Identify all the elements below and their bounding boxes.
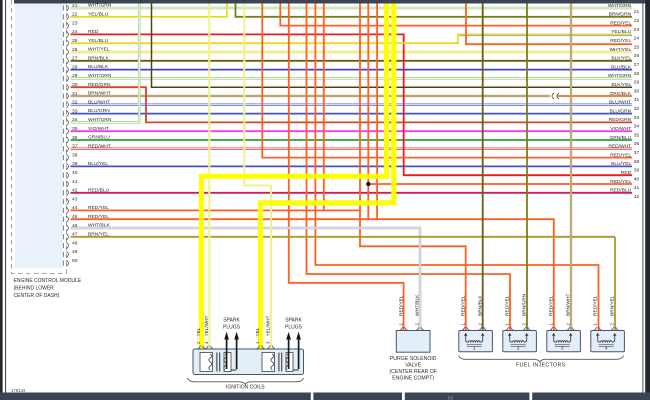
coil 1 primary winding box [200, 353, 213, 372]
svg-text:PLUGS: PLUGS [223, 324, 241, 330]
injector 2 pin entry mark 1 [506, 327, 514, 330]
svg-text:39: 39 [72, 161, 78, 167]
svg-text:21: 21 [72, 3, 78, 9]
ECM pin 34 connector bracket [62, 120, 64, 125]
thick YEL wire to coil 1 [202, 0, 387, 349]
svg-text:RED/YEL: RED/YEL [548, 295, 554, 316]
svg-text:RED/YEL: RED/YEL [592, 295, 598, 316]
riser RED/YEL to injector 4 [315, 4, 598, 331]
svg-text:42: 42 [72, 188, 78, 194]
svg-text:29: 29 [72, 73, 78, 79]
svg-text:PURGE SOLENOID: PURGE SOLENOID [390, 356, 437, 362]
riser BRN/BLK to injector 1 [482, 4, 484, 331]
svg-text:RED/GRN: RED/GRN [609, 117, 632, 123]
wire row 30 BLK/YEL from top [152, 4, 633, 88]
svg-text:WHT/GRN: WHT/GRN [608, 73, 632, 79]
svg-text:1: 1 [504, 323, 509, 326]
ignition coils box [193, 349, 304, 375]
injector 4 pin entry mark 2 [611, 327, 619, 330]
ECM pin 38 connector bracket [62, 155, 64, 160]
ECM pin 42 connector bracket [62, 190, 64, 195]
svg-text:RED/GRN: RED/GRN [88, 82, 111, 88]
ECM pin 48 connector bracket [62, 243, 64, 248]
fuel injector 4 box [591, 331, 625, 352]
svg-text:WHT/BLK: WHT/BLK [88, 223, 110, 229]
wire YEL/WHT to coil 1 [208, 4, 210, 350]
svg-text:35: 35 [634, 132, 640, 138]
svg-text:35: 35 [72, 126, 78, 132]
svg-text:(CENTER REAR OF: (CENTER REAR OF [389, 369, 437, 375]
svg-text:23: 23 [72, 20, 78, 26]
svg-text:27: 27 [634, 62, 640, 68]
svg-text:ORG/BLK: ORG/BLK [609, 91, 631, 97]
svg-text:2: 2 [565, 323, 570, 326]
svg-text:WHT/GRN: WHT/GRN [88, 117, 112, 123]
spark plug arrow 1 [226, 338, 228, 370]
wire row 23 RED/YEL from top [280, 4, 632, 26]
svg-text:1: 1 [398, 323, 403, 326]
left page border line [5, 0, 7, 393]
svg-text:1: 1 [592, 323, 597, 326]
svg-text:45: 45 [72, 214, 78, 220]
svg-text:26: 26 [72, 47, 78, 53]
ECM pin 39 connector bracket [62, 164, 64, 169]
spark plug arrow 4 [298, 338, 300, 370]
svg-text:3: 3 [266, 341, 271, 344]
svg-text:1: 1 [460, 323, 465, 326]
fuel injector 1 box [459, 331, 493, 352]
injector 3 pin entry mark 2 [567, 327, 575, 330]
svg-text:RED/YEL: RED/YEL [398, 295, 404, 316]
svg-text:37: 37 [72, 144, 78, 150]
svg-text:36: 36 [72, 135, 78, 141]
coil 2 secondary winding box [286, 353, 293, 372]
svg-text:41: 41 [72, 179, 78, 185]
svg-text:22: 22 [634, 18, 640, 24]
svg-text:32: 32 [634, 106, 640, 112]
svg-text:PLUGS: PLUGS [285, 324, 303, 330]
ECM pin 31 connector bracket [62, 93, 64, 98]
svg-text:BLU/BLK: BLU/BLK [88, 64, 109, 70]
riser BRN/YEL x=615 to injector 4 [614, 237, 616, 331]
left black bar [0, 0, 3, 393]
svg-text:34: 34 [634, 124, 640, 130]
ECM pin 43 connector bracket [62, 199, 64, 204]
svg-text:BRN/GRN: BRN/GRN [521, 293, 527, 316]
svg-text:YEL/BLU: YEL/BLU [611, 29, 632, 35]
svg-text:4: 4 [605, 345, 608, 351]
ECM pin 47 connector bracket [62, 234, 64, 239]
right black bar [645, 0, 650, 393]
coil pin entry mark 4 [205, 346, 213, 349]
svg-text:2: 2 [521, 323, 526, 326]
svg-text:M: M [448, 396, 453, 400]
svg-text:BLU/WHT: BLU/WHT [88, 99, 110, 105]
riser RED/YEL x=360 to injector 1 [360, 4, 466, 331]
svg-text:2: 2 [477, 323, 482, 326]
inline connector symbol row 31 [552, 93, 559, 99]
wire row 27 BRN/BLK to BLK/YEL [71, 60, 633, 62]
svg-text:RED/YEL: RED/YEL [610, 179, 631, 185]
top border bar [14, 0, 650, 4]
spark plug arrow connector 2 [293, 369, 299, 371]
ignition coils brace [188, 378, 304, 384]
svg-text:24: 24 [634, 36, 640, 42]
right page border line [642, 4, 644, 394]
svg-text:YEL: YEL [196, 327, 201, 336]
svg-text:YEL/BLU: YEL/BLU [88, 38, 109, 44]
riser BRN/GRN to injector 2 [526, 4, 528, 331]
svg-text:4: 4 [204, 341, 209, 344]
svg-text:178134: 178134 [11, 388, 26, 393]
svg-text:WHT/GRN: WHT/GRN [608, 3, 632, 9]
svg-text:IGNITION COILS: IGNITION COILS [226, 385, 265, 391]
svg-text:48: 48 [72, 240, 78, 246]
riser RED/YEL x=377.1 [376, 4, 378, 220]
svg-text:RED/YEL: RED/YEL [610, 20, 631, 26]
svg-text:BLK/YEL: BLK/YEL [611, 82, 631, 88]
svg-text:RED/YEL: RED/YEL [460, 295, 466, 316]
wire row 28 BLU/BLK [71, 69, 633, 71]
svg-text:49: 49 [72, 249, 78, 255]
coil 1 secondary winding box [224, 353, 231, 372]
svg-text:VIO/WHT: VIO/WHT [610, 126, 631, 132]
svg-text:38: 38 [72, 152, 78, 158]
svg-text:RED/WHT: RED/WHT [88, 143, 111, 149]
svg-text:YEL/WHT: YEL/WHT [266, 316, 271, 337]
svg-text:46: 46 [72, 223, 78, 229]
wire row 32 BLU/WHT [71, 104, 633, 107]
wire row 39 BLU/YEL [71, 165, 633, 167]
wire pin 34 WHT/GRN to top [71, 4, 140, 123]
wire pin 30 RED/GRN to row 34 [71, 87, 633, 122]
ECM pin 35 connector bracket [62, 129, 64, 134]
fuel injector 3 coil symbol [554, 333, 571, 342]
svg-text:21: 21 [634, 9, 640, 15]
svg-text:RED/YEL: RED/YEL [88, 205, 109, 211]
svg-text:34: 34 [72, 117, 78, 123]
ECM pin 22 connector bracket [62, 14, 64, 19]
svg-text:BRN/YEL: BRN/YEL [609, 295, 615, 316]
wire row 25 RED/YEL from top [466, 4, 632, 45]
ECM pin 25 connector bracket [62, 41, 64, 46]
svg-text:GRN/BLU: GRN/BLU [88, 135, 110, 141]
riser RED/YEL to injector 2 [307, 4, 511, 331]
svg-text:YEL/WHT: YEL/WHT [204, 316, 209, 337]
svg-text:BLU/GRN: BLU/GRN [609, 108, 631, 114]
wire pin 45 RED/YEL to injector 3 [71, 219, 554, 330]
ECM pin 44 connector bracket [62, 208, 64, 213]
ECM connector block (light blue) [15, 0, 63, 268]
wire row 26 WHT/YEL [71, 51, 633, 54]
ECM pin 37 connector bracket [62, 146, 64, 151]
fuel injector 2 box [503, 331, 537, 352]
svg-text:38: 38 [634, 159, 640, 165]
spark plug arrow connector 1 [231, 369, 237, 371]
ECM pin 41 connector bracket [62, 181, 64, 186]
ECM pin 49 connector bracket [62, 252, 64, 257]
ECM pin 27 connector bracket [62, 58, 64, 63]
svg-text:41: 41 [634, 185, 640, 191]
svg-text:50: 50 [72, 258, 78, 264]
wire row 21 WHT/GRN [71, 7, 633, 10]
wire pin 24 RED to row 40 [71, 34, 633, 175]
wire row 36 GRN/BLU [71, 139, 633, 141]
svg-text:YEL/BLU: YEL/BLU [88, 11, 109, 17]
wire row 33 BLU/GRN [71, 113, 633, 115]
svg-text:ENGINE COMPT): ENGINE COMPT) [392, 376, 434, 382]
svg-text:BRN/YEL: BRN/YEL [88, 231, 109, 237]
purge solenoid valve box [396, 331, 430, 353]
svg-text:47: 47 [72, 232, 78, 238]
svg-text:29: 29 [634, 80, 640, 86]
coil pin entry mark 3 [267, 346, 275, 349]
ECM pin 40 connector bracket [62, 173, 64, 178]
svg-text:22: 22 [72, 12, 78, 18]
wire pin 44 RED/YEL [71, 209, 361, 211]
svg-text:BRN/BLK: BRN/BLK [477, 295, 483, 316]
fuel injector 4 coil symbol [598, 333, 615, 342]
ECM pin 46 connector bracket [62, 225, 64, 230]
ECM pin 50 connector bracket [62, 261, 64, 266]
svg-text:BRN/BLK: BRN/BLK [88, 55, 110, 61]
svg-text:2: 2 [609, 323, 614, 326]
coil pin entry mark 1 [257, 346, 265, 349]
coil 2 core [278, 353, 280, 372]
wire row 31 BRN/WHT [71, 95, 551, 97]
bottom bar segment 3 [405, 393, 530, 400]
svg-text:31: 31 [72, 91, 78, 97]
wire row 22 BRN/GRN from top [236, 4, 633, 17]
svg-text:1: 1 [473, 345, 476, 351]
svg-text:33: 33 [72, 108, 78, 114]
bottom bar segment 2 [313, 393, 402, 400]
bottom bar segment 1 [0, 393, 311, 400]
svg-text:RED/YEL: RED/YEL [610, 152, 631, 158]
svg-text:RED/BLU: RED/BLU [610, 188, 632, 194]
ECM pin 23 connector bracket [62, 23, 64, 28]
svg-text:VIO/WHT: VIO/WHT [88, 126, 109, 132]
svg-text:BRN/GRN: BRN/GRN [609, 12, 632, 18]
svg-text:RED/YEL: RED/YEL [504, 295, 510, 316]
ECM pin 45 connector bracket [62, 217, 64, 222]
wire row 41 RED/YEL [368, 183, 632, 185]
svg-text:28: 28 [72, 64, 78, 70]
coil 1 core [216, 353, 218, 372]
spark plug arrow 2 [236, 338, 238, 370]
svg-text:27: 27 [72, 56, 78, 62]
svg-text:40: 40 [72, 170, 78, 176]
svg-text:RED/YEL: RED/YEL [88, 214, 109, 220]
svg-text:25: 25 [72, 38, 78, 44]
ECM pin 21 connector bracket [62, 5, 64, 10]
svg-text:ENGINE CONTROL MODULE: ENGINE CONTROL MODULE [14, 278, 82, 284]
coil 2 primary winding box [262, 353, 275, 372]
svg-text:40: 40 [634, 176, 640, 182]
riser RED/YEL x=323.8 [323, 4, 325, 211]
svg-text:36: 36 [634, 141, 640, 147]
svg-text:RED/WHT: RED/WHT [608, 144, 631, 150]
svg-text:YEL: YEL [255, 327, 260, 336]
svg-text:RED: RED [621, 170, 632, 176]
injector 1 pin entry mark 1 [462, 327, 470, 330]
svg-text:RED/YEL: RED/YEL [610, 38, 631, 44]
svg-text:BLU/YEL: BLU/YEL [611, 161, 631, 167]
svg-text:BLU/WHT: BLU/WHT [609, 100, 631, 106]
ECM pin 29 connector bracket [62, 76, 64, 81]
spark plug arrow 3 [288, 338, 290, 370]
svg-text:26: 26 [634, 53, 640, 59]
svg-text:39: 39 [634, 168, 640, 174]
svg-text:GRN/BLU: GRN/BLU [609, 135, 631, 141]
ECM pin 32 connector bracket [62, 102, 64, 107]
svg-text:CENTER OF DASH): CENTER OF DASH) [14, 293, 60, 299]
svg-text:WHT/YEL: WHT/YEL [88, 47, 110, 53]
svg-text:(BEHIND LOWER: (BEHIND LOWER [14, 286, 55, 292]
svg-text:24: 24 [72, 29, 78, 35]
svg-text:SPARK: SPARK [285, 318, 302, 324]
wire pin 25 YEL/BLU to row 24 [71, 34, 633, 43]
svg-text:25: 25 [634, 44, 640, 50]
svg-text:WHT/GRN: WHT/GRN [88, 73, 112, 79]
svg-text:33: 33 [634, 115, 640, 121]
svg-text:31: 31 [634, 97, 640, 103]
svg-text:WHT/BLK: WHT/BLK [415, 294, 421, 316]
thick YEL wire to coil 2 [261, 0, 394, 349]
svg-text:32: 32 [72, 100, 78, 106]
svg-text:28: 28 [634, 71, 640, 77]
svg-text:BRN/WHT: BRN/WHT [565, 294, 571, 316]
wire YEL/WHT to coil 2 [244, 4, 271, 350]
wire row 38 RED/YEL from top [262, 4, 632, 158]
svg-text:3: 3 [561, 345, 564, 351]
svg-text:SPARK: SPARK [223, 318, 240, 324]
injector 4 pin entry mark 1 [594, 327, 602, 330]
wire row 29 WHT/GRN [71, 77, 633, 80]
fuel injector 1 coil symbol [466, 333, 483, 342]
riser BRN/WHT to injector 3 [570, 4, 572, 331]
svg-text:30: 30 [634, 88, 640, 94]
svg-text:44: 44 [72, 205, 78, 211]
purge valve pin entry mark 1 [400, 327, 408, 330]
ECM pin 33 connector bracket [62, 111, 64, 116]
svg-text:BRN/WHT: BRN/WHT [88, 91, 111, 97]
svg-text:1: 1 [548, 323, 553, 326]
YEL/BLU blue stripe right segment [460, 35, 633, 37]
wire row 31 ORG/BLK [558, 95, 633, 97]
wire pin 22 YEL/BLU to top [71, 4, 227, 17]
ECM pin 30 connector bracket [62, 85, 64, 90]
injector 3 pin entry mark 1 [550, 327, 558, 330]
svg-text:VALVE: VALVE [405, 362, 421, 368]
svg-text:BLU/YEL: BLU/YEL [88, 161, 108, 167]
svg-text:RED/BLU: RED/BLU [88, 187, 110, 193]
svg-text:WHT/YEL: WHT/YEL [609, 47, 631, 53]
svg-text:BLK/YEL: BLK/YEL [611, 56, 631, 62]
injector 1 pin entry mark 2 [479, 327, 487, 330]
fuel injectors brace [459, 356, 624, 362]
svg-text:43: 43 [72, 196, 78, 202]
ECM pin 26 connector bracket [62, 49, 64, 54]
junction dot [366, 182, 370, 186]
svg-text:2: 2 [517, 345, 520, 351]
wire row 37 RED/WHT [71, 148, 633, 151]
svg-text:30: 30 [72, 82, 78, 88]
wire pin 46 WHT/BLK to purge valve [71, 228, 421, 331]
ECM pin 24 connector bracket [62, 32, 64, 37]
svg-text:FUEL INJECTORS: FUEL INJECTORS [516, 363, 566, 369]
riser RED/YEL junction to pin 45 [367, 4, 369, 220]
wire pin 47 BRN/YEL [71, 236, 616, 238]
bottom bar segment 4 [532, 393, 650, 400]
ECM pin 36 connector bracket [62, 137, 64, 142]
fuel injector 2 coil symbol [510, 333, 527, 342]
svg-text:RED: RED [88, 29, 99, 35]
fuel injector 3 box [547, 331, 581, 352]
wire row 35 VIO/WHT [71, 130, 633, 132]
svg-text:BLU/BLK: BLU/BLK [611, 64, 632, 70]
svg-text:WHT/GRN: WHT/GRN [88, 3, 112, 9]
svg-text:BLU/GRN: BLU/GRN [88, 108, 110, 114]
riser RED/YEL to purge solenoid [289, 4, 404, 331]
wire row 42 RED/BLU [71, 192, 633, 194]
ECM pin 28 connector bracket [62, 67, 64, 72]
purge valve pin entry mark 2 [416, 327, 424, 330]
svg-text:37: 37 [634, 150, 640, 156]
coil pin entry mark 2 [198, 346, 206, 349]
ECM dashed boundary box [12, 0, 67, 274]
svg-text:42: 42 [634, 194, 640, 200]
svg-text:23: 23 [634, 27, 640, 33]
injector 2 pin entry mark 2 [523, 327, 531, 330]
